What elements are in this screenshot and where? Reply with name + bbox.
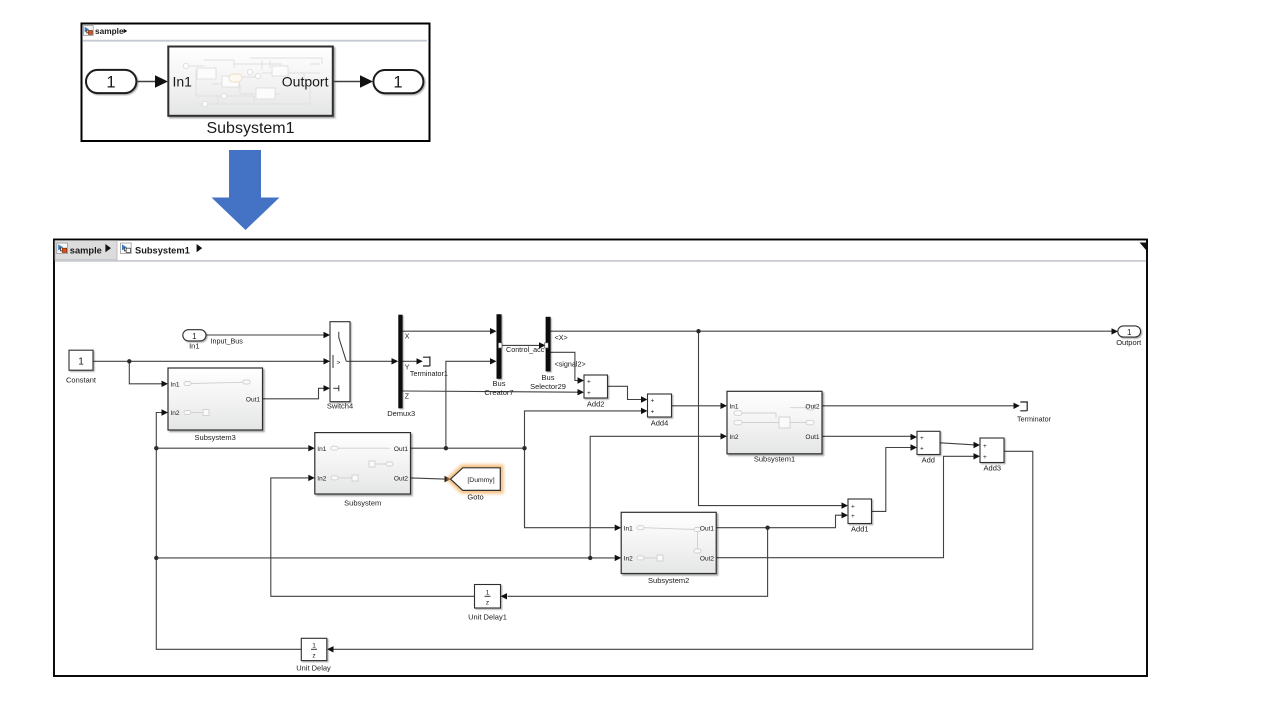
svg-text:Subsystem3: Subsystem3 — [195, 433, 236, 442]
svg-text:1: 1 — [1127, 328, 1132, 337]
svg-text:Terminator: Terminator — [1017, 415, 1052, 424]
svg-text:Out1: Out1 — [805, 434, 819, 441]
svg-text:Out1: Out1 — [700, 526, 714, 533]
svg-text:Unit Delay1: Unit Delay1 — [468, 613, 507, 622]
svg-text:Bus: Bus — [542, 373, 555, 382]
svg-text:+: + — [983, 443, 987, 450]
svg-text:Add1: Add1 — [851, 525, 869, 534]
svg-text:Add3: Add3 — [984, 463, 1002, 472]
svg-text:+: + — [587, 378, 591, 385]
svg-text:+: + — [651, 409, 655, 416]
svg-text:+: + — [920, 435, 924, 442]
svg-text:In1: In1 — [624, 526, 633, 533]
svg-text:In1: In1 — [317, 446, 326, 453]
svg-text:1: 1 — [192, 332, 197, 341]
svg-text:sample: sample — [95, 26, 124, 36]
svg-text:[Dummy]: [Dummy] — [467, 477, 494, 484]
svg-text:Switch4: Switch4 — [327, 401, 353, 410]
svg-text:Terminator1: Terminator1 — [410, 369, 448, 378]
svg-text:1: 1 — [106, 73, 115, 91]
svg-text:sample: sample — [70, 245, 102, 255]
svg-text:Outport: Outport — [1116, 338, 1142, 347]
svg-text:In2: In2 — [730, 434, 739, 441]
svg-text:1: 1 — [393, 73, 402, 91]
svg-text:Out2: Out2 — [394, 476, 408, 483]
svg-text:In2: In2 — [317, 476, 326, 483]
svg-text:+: + — [851, 503, 855, 510]
svg-text:Subsystem1: Subsystem1 — [754, 455, 795, 464]
svg-text:Subsystem: Subsystem — [344, 498, 381, 507]
svg-text:Control_acc: Control_acc — [506, 345, 545, 354]
svg-text:Input_Bus: Input_Bus — [211, 336, 244, 345]
svg-text:Subsystem1: Subsystem1 — [206, 120, 294, 137]
svg-text:<signal2>: <signal2> — [555, 360, 586, 369]
svg-text:In1: In1 — [189, 342, 199, 351]
svg-text:1: 1 — [312, 643, 316, 650]
svg-text:Out1: Out1 — [246, 397, 260, 404]
svg-text:+: + — [920, 445, 924, 452]
svg-text:>: > — [337, 359, 341, 366]
svg-text:Add2: Add2 — [587, 399, 605, 408]
svg-text:+: + — [651, 397, 655, 404]
svg-text:In1: In1 — [171, 382, 180, 389]
svg-text:+: + — [983, 454, 987, 461]
svg-text:Out1: Out1 — [394, 446, 408, 453]
svg-text:Add4: Add4 — [651, 418, 669, 427]
svg-text:+: + — [587, 390, 591, 397]
svg-text:Demux3: Demux3 — [387, 409, 415, 418]
svg-text:In1: In1 — [173, 74, 193, 90]
svg-text:Constant: Constant — [66, 376, 97, 385]
svg-text:<X>: <X> — [555, 333, 568, 342]
svg-text:1: 1 — [486, 590, 490, 597]
svg-text:z: z — [312, 652, 315, 659]
svg-text:Add: Add — [922, 456, 935, 465]
svg-text:Z: Z — [405, 393, 410, 400]
svg-text:+: + — [851, 513, 855, 520]
svg-text:Bus: Bus — [493, 379, 506, 388]
svg-text:Selector29: Selector29 — [530, 382, 566, 391]
svg-text:Out2: Out2 — [805, 404, 819, 411]
svg-text:Out2: Out2 — [700, 556, 714, 563]
svg-text:Creator7: Creator7 — [484, 388, 513, 397]
svg-text:Subsystem2: Subsystem2 — [648, 576, 689, 585]
svg-text:Goto: Goto — [467, 493, 483, 502]
svg-text:Outport: Outport — [282, 74, 329, 90]
svg-text:Unit Delay: Unit Delay — [296, 664, 331, 673]
svg-text:Subsystem1: Subsystem1 — [135, 245, 190, 255]
svg-text:z: z — [486, 599, 489, 606]
svg-text:1: 1 — [78, 356, 84, 367]
svg-text:In2: In2 — [624, 556, 633, 563]
svg-text:In2: In2 — [171, 410, 180, 417]
svg-text:In1: In1 — [730, 404, 739, 411]
svg-text:X: X — [405, 334, 410, 341]
